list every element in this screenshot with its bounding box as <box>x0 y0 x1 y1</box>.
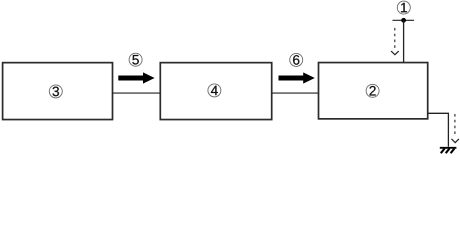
node dot junction <box>401 18 406 23</box>
label circle 2 <box>366 84 379 97</box>
label circle 3 <box>49 85 62 98</box>
label circle 5 <box>129 53 142 66</box>
dashed arrow at ground <box>452 114 459 143</box>
wire between box 4 and box 2 <box>272 92 319 94</box>
dashed arrow at input 1 <box>391 28 399 55</box>
thick arrow 6 <box>279 72 315 83</box>
chassis ground symbol <box>440 148 457 153</box>
block box 3 <box>3 63 113 120</box>
label circle 6 <box>290 53 303 66</box>
wire stub from box 2 to ground <box>428 113 449 146</box>
wire between box 3 and box 4 <box>113 92 161 94</box>
label circle 1 <box>397 1 410 14</box>
thick arrow 5 <box>118 72 154 83</box>
block box 4 <box>160 63 271 120</box>
label circle 4 <box>208 84 221 97</box>
block box 2 <box>319 63 428 119</box>
antenna top horizontal wire <box>393 19 415 21</box>
vertical wire from node to box 2 <box>403 20 405 62</box>
